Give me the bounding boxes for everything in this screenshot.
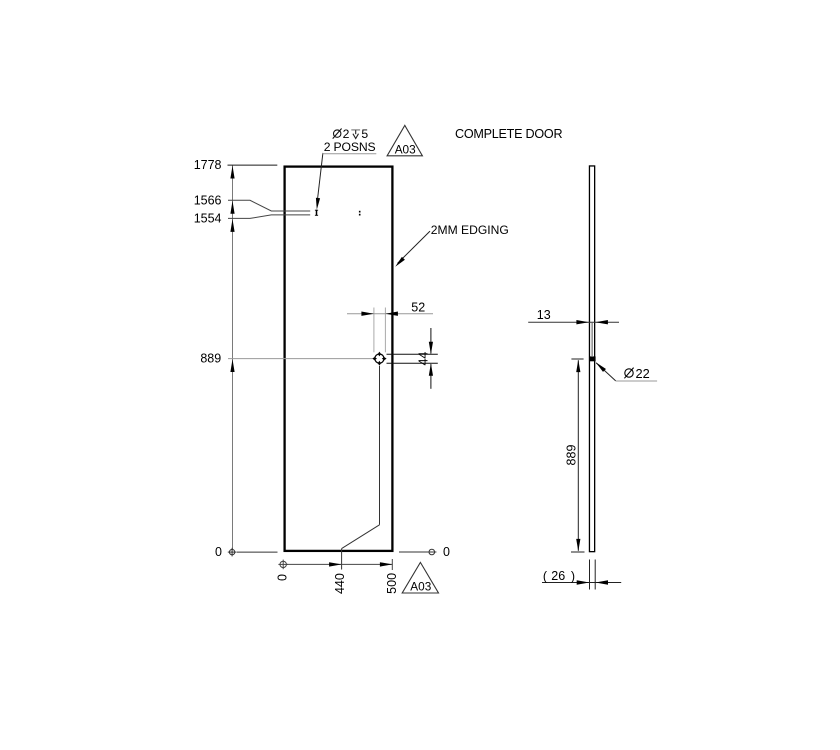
svg-text:26: 26 xyxy=(551,569,565,583)
svg-text:440: 440 xyxy=(333,573,347,594)
dimension 44 vertical line and arrows xyxy=(430,328,432,354)
dimension 13 line xyxy=(528,321,619,323)
svg-text:2MM EDGING: 2MM EDGING xyxy=(431,223,509,237)
svg-text:2: 2 xyxy=(343,127,350,141)
dimension 26 line xyxy=(542,582,621,584)
zero baseline right line xyxy=(399,551,428,553)
svg-text:COMPLETE DOOR: COMPLETE DOOR xyxy=(455,127,562,141)
svg-text:22: 22 xyxy=(636,366,650,381)
dimension 44 extension lines xyxy=(387,353,438,355)
ordinate arrow at 1554 xyxy=(230,219,234,232)
bottom ordinate dimension line xyxy=(287,563,393,565)
side view outline xyxy=(589,166,594,552)
ordinate arrow at 1778 xyxy=(230,166,234,179)
side dimension 889 line xyxy=(577,360,579,551)
origin marker left xyxy=(228,548,237,557)
flag triangle A03 top xyxy=(387,125,422,155)
drill note depth symbol xyxy=(351,130,360,139)
door front view outline xyxy=(285,167,393,551)
hole tick mark right (second position) xyxy=(359,211,361,216)
bottom arrow at 500 xyxy=(380,562,393,566)
ordinate arrow at 1566 xyxy=(230,201,234,214)
origin marker right xyxy=(427,549,436,555)
svg-text:A03: A03 xyxy=(410,580,431,594)
extension line 500 xyxy=(391,559,393,570)
dimension 13 arrows xyxy=(576,320,589,324)
side dimension 889 arrows xyxy=(576,360,580,373)
hole tick mark left (drilled position) xyxy=(315,210,318,216)
zero baseline left line xyxy=(237,551,278,553)
ordinate baseline vertical line xyxy=(232,165,234,549)
leader for hole diameter 22 xyxy=(596,363,616,381)
svg-text:): ) xyxy=(571,570,575,584)
diameter 22 symbol xyxy=(624,368,633,379)
ordinate arrow at 889 xyxy=(230,359,234,372)
dimension 1778 line xyxy=(228,164,278,166)
svg-text:0: 0 xyxy=(443,545,450,559)
svg-text:52: 52 xyxy=(411,301,425,315)
dimension 52 line xyxy=(347,313,433,315)
drill note underline xyxy=(323,153,377,155)
flag triangle A03 bottom xyxy=(402,562,438,593)
dimension 52 extension lines xyxy=(373,308,375,353)
leader arrow for drill note xyxy=(318,153,323,199)
svg-text:13: 13 xyxy=(537,308,551,322)
side dimension 889 top tick xyxy=(571,358,583,360)
extension line 440 xyxy=(341,549,343,570)
bottom ordinate origin marker xyxy=(278,560,288,570)
lock edge profile vertical line xyxy=(379,366,381,525)
svg-text:889: 889 xyxy=(200,352,221,366)
svg-text:0: 0 xyxy=(276,574,290,581)
dimension 26 arrows xyxy=(577,580,590,584)
dimension 889 line xyxy=(228,358,372,360)
side view hole centerline xyxy=(591,323,593,356)
dimension 1554 leader xyxy=(228,215,310,219)
lock edge profile diagonal xyxy=(342,525,380,549)
dimension 52 arrows xyxy=(361,312,374,316)
svg-text:1778: 1778 xyxy=(194,158,222,172)
svg-text:1566: 1566 xyxy=(194,193,222,207)
svg-text:A03: A03 xyxy=(395,143,416,157)
svg-text:500: 500 xyxy=(385,573,399,594)
dimension 26 extension lines xyxy=(589,560,591,590)
svg-text:889: 889 xyxy=(564,445,578,466)
drill note diameter symbol xyxy=(333,129,342,139)
svg-text:5: 5 xyxy=(361,127,368,141)
bottom arrow at 440 xyxy=(329,562,342,566)
hole symbol at 889 xyxy=(372,352,386,366)
svg-text:2 POSNS: 2 POSNS xyxy=(324,140,376,154)
dimension 1566 leader xyxy=(228,200,310,211)
svg-text:0: 0 xyxy=(215,545,222,559)
svg-text:1554: 1554 xyxy=(194,212,222,226)
leader arrow for 2MM EDGING xyxy=(398,231,431,263)
svg-text:44: 44 xyxy=(417,352,431,366)
side view hole dot xyxy=(590,356,596,361)
side dimension 889 bottom tick xyxy=(571,551,585,553)
